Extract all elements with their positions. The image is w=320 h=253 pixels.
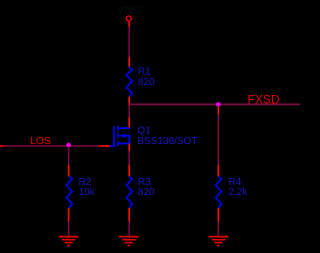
transistor Q1: [110, 125, 198, 147]
svg-text:R2: R2: [79, 177, 92, 188]
svg-text:R4: R4: [229, 177, 242, 188]
junction at LOS / R2: [66, 143, 71, 148]
svg-text:R3: R3: [138, 177, 151, 188]
svg-text:2.2k: 2.2k: [229, 187, 249, 198]
ground (right): [208, 236, 228, 247]
pin: R4 pin 1: [217, 165, 219, 177]
power net label VT2.5: [118, 6, 142, 16]
node FXSD label: [248, 93, 280, 107]
body arrow: [119, 134, 126, 138]
pin: Q1 drain pin (red): [128, 118, 130, 129]
wire: junction down to R2 (maroon): [68, 147, 70, 165]
svg-text:FXSD: FXSD: [248, 93, 280, 107]
source contact tick: [117, 141, 119, 146]
wire: FXSD net horizontal (maroon): [129, 103, 301, 105]
pin: R1 pin 2: [128, 97, 130, 107]
svg-text:Q1: Q1: [137, 125, 151, 136]
wire: R2 to ground (maroon): [68, 222, 70, 236]
wire: junction stub down (red): [217, 106, 219, 114]
svg-text:820: 820: [138, 77, 155, 88]
source lead: [118, 143, 130, 145]
svg-text:820: 820: [138, 187, 155, 198]
ground (middle): [119, 236, 139, 247]
wire: port stub (red): [128, 22, 130, 27]
ground (left): [59, 236, 79, 247]
svg-text:R1: R1: [138, 66, 151, 77]
wire: source to R3 (maroon): [128, 151, 130, 164]
wire: LOS horizontal (maroon): [5, 145, 100, 147]
body lead: [125, 136, 129, 144]
resistor R1: [126, 66, 155, 96]
pin: Q1 gate pin (red): [99, 145, 110, 147]
svg-text:BSS138/SOT: BSS138/SOT: [137, 136, 197, 147]
resistor R2: [66, 176, 95, 208]
svg-text:VT2.5: VT2.5: [118, 6, 142, 16]
pin: R2 pin 1: [68, 165, 70, 177]
wire: LOS edge stub (red): [0, 145, 5, 147]
gate bar: [113, 126, 115, 146]
junction at FXSD / R4: [216, 102, 221, 107]
pin: R3 pin 1: [128, 165, 130, 177]
drain lead: [118, 127, 130, 129]
pin: R3 pin 2: [128, 208, 130, 222]
resistor R3: [126, 176, 155, 208]
resistor R4: [216, 176, 249, 208]
wire: R4 to ground (maroon): [217, 222, 219, 236]
wire: R1 to Q1 drain (maroon): [128, 106, 130, 117]
pin: R4 pin 2: [217, 208, 219, 222]
pin: R2 pin 2: [68, 208, 70, 222]
svg-text:10k: 10k: [79, 187, 96, 198]
wire: R3 to ground (maroon): [128, 222, 130, 236]
pin: Q1 source pin (red): [128, 144, 130, 152]
svg-text:LOS: LOS: [30, 135, 51, 147]
wire: down to R4 (maroon): [217, 114, 219, 165]
pin: R1 pin 1: [128, 57, 130, 67]
drain contact tick: [117, 126, 119, 131]
wire: port to R1 (maroon): [128, 27, 130, 57]
node LOS label: [30, 135, 51, 147]
gate lead: [110, 145, 115, 147]
body contact tick: [117, 133, 119, 138]
power port circle: [126, 16, 131, 21]
